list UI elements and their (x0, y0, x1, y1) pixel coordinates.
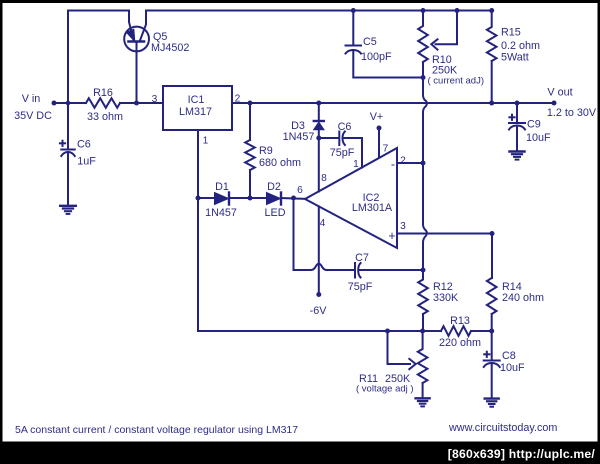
op-amp U: regulator IC1 LM317 box (163, 86, 232, 130)
svg-text:1: 1 (203, 136, 209, 147)
node: R10 wiper top junction (455, 8, 460, 13)
svg-text:R9: R9 (259, 145, 273, 157)
svg-text:LED: LED (264, 207, 285, 219)
ground (C8) (485, 399, 499, 407)
wire: input node down to C6 (67, 103, 69, 149)
ground (C9) (510, 152, 525, 160)
resistor R16 (86, 98, 120, 108)
capacitor C6 (75pF) (339, 132, 345, 146)
svg-text:C9: C9 (527, 119, 541, 131)
capacitor C8 (10uF electrolytic) (484, 331, 500, 398)
ground (input) (60, 206, 76, 214)
node: junction at V in rail / C6 (66, 101, 71, 106)
resistor R14 (240 ohm) (487, 233, 497, 331)
svg-text:2: 2 (235, 94, 241, 105)
svg-text:C7: C7 (355, 252, 369, 264)
wire: R13 to R14 (471, 330, 492, 332)
svg-text:R13: R13 (450, 315, 470, 327)
diode D3 (1N457) (314, 121, 324, 130)
wire: D3 branch (318, 103, 320, 192)
svg-text:V+: V+ (370, 111, 384, 123)
svg-text:R15: R15 (501, 27, 521, 39)
svg-text:C6: C6 (77, 139, 91, 151)
svg-text:IC1: IC1 (188, 94, 205, 106)
R11 wiper arrow (409, 359, 415, 369)
svg-text:4: 4 (320, 218, 326, 229)
node: D3 top junction on V out wire (316, 101, 321, 106)
resistor R15 (0.2 ohm 5W) (487, 11, 497, 104)
svg-text:2: 2 (400, 156, 406, 167)
wire: IC2 pin3 to R14/R15 rail (397, 233, 492, 235)
svg-text:V out: V out (547, 87, 572, 99)
wire: C6 to pin1 (319, 138, 362, 168)
capacitor C5 (100pF) (346, 46, 362, 54)
wire: top rail right segment (146, 10, 492, 12)
resistor R13 (220 ohm) (441, 326, 471, 336)
wire: R11 wiper arm (388, 331, 411, 364)
svg-text:680 ohm: 680 ohm (259, 157, 301, 169)
svg-text:C5: C5 (363, 36, 377, 48)
node: IC1 adj / D1 junction (196, 196, 201, 201)
power V+ terminal (377, 126, 382, 158)
wire: R10 wiper arm (436, 11, 458, 45)
svg-text:220 ohm: 220 ohm (439, 337, 481, 349)
node: R15 / V out junction (489, 101, 494, 106)
diode D2 (LED) (267, 193, 282, 205)
svg-text:0.2 ohm: 0.2 ohm (501, 40, 540, 52)
svg-text:3: 3 (400, 221, 406, 232)
svg-text:D2: D2 (267, 181, 281, 193)
svg-text:R16: R16 (93, 87, 113, 99)
node: C5 top junction (351, 8, 356, 13)
svg-text:6: 6 (297, 185, 303, 196)
wire: rail hop over V out wire (423, 78, 427, 163)
node: base junction on input wire (134, 101, 139, 106)
node: R15 top junction (489, 8, 494, 13)
wire: C7 to rail (360, 269, 423, 271)
wire: bottom rail (198, 330, 441, 332)
svg-text:330K: 330K (433, 292, 459, 304)
node: D3 / C6 junction (316, 136, 321, 141)
svg-text:33 ohm: 33 ohm (87, 111, 123, 123)
svg-text:1.2 to 30V: 1.2 to 30V (547, 107, 597, 119)
svg-text:www.circuitstoday.com: www.circuitstoday.com (448, 422, 557, 434)
node: pin2 rail junction (421, 161, 426, 166)
node: V out terminal (552, 101, 557, 106)
wire: IC1 pin1 down to bottom rail (197, 130, 199, 331)
svg-text:5Watt: 5Watt (501, 52, 529, 64)
wire: IC2 pin2 to R10/R12 rail (397, 162, 423, 164)
node: V in terminal (52, 101, 57, 106)
op-amp U1: IC2 LM301A (305, 148, 397, 248)
node: R9 top junction (248, 101, 253, 106)
svg-text:8: 8 (321, 173, 327, 184)
wire: feedback C7 loop with hop over pin4 line (294, 198, 356, 270)
svg-text:1N457: 1N457 (283, 131, 315, 143)
svg-text:75pF: 75pF (330, 147, 355, 159)
transistor Q5 (PNP MJ4502) (124, 11, 149, 104)
capacitor C7 (75pF) (355, 263, 361, 278)
resistor R10 (250K pot) (418, 11, 428, 78)
svg-text:+: + (388, 229, 395, 243)
svg-text:D1: D1 (215, 181, 229, 193)
node: D2 / op-amp input junction (291, 196, 296, 201)
wire: R9 leads (249, 103, 251, 198)
diode D1 (1N457) (215, 193, 230, 205)
node: C5/R10 junction (421, 75, 426, 80)
svg-text:5A constant current / constant: 5A constant current / constant voltage r… (15, 424, 298, 436)
svg-text:7: 7 (383, 144, 389, 155)
svg-text:V in: V in (22, 93, 41, 105)
wire: IC1 pin2 to V out (232, 102, 554, 104)
svg-text:1N457: 1N457 (205, 207, 237, 219)
ground (R11) (416, 398, 430, 406)
node: R10 top junction (421, 8, 426, 13)
svg-text:1: 1 (353, 159, 359, 170)
node: R11 wiper junction (385, 329, 390, 334)
svg-text:10uF: 10uF (500, 362, 525, 374)
node: D1/R9 junction (248, 196, 253, 201)
svg-text:[860x639] http://uplc.me/: [860x639] http://uplc.me/ (448, 447, 596, 461)
node: R13/R14/C8 junction (489, 329, 494, 334)
wire: top rail left segment (68, 11, 129, 104)
svg-text:3: 3 (152, 94, 158, 105)
wire: D1 D2 row (198, 197, 305, 200)
svg-text:( current adJ): ( current adJ) (428, 76, 485, 87)
node: C9 junction (515, 101, 520, 106)
svg-text:MJ4502: MJ4502 (151, 42, 189, 54)
capacitor C9 (10uF electrolytic) (509, 103, 525, 151)
svg-text:( voltage adj ): ( voltage adj ) (356, 384, 414, 395)
svg-text:75pF: 75pF (348, 281, 373, 293)
svg-text:100pF: 100pF (361, 51, 392, 63)
svg-text:1uF: 1uF (77, 156, 96, 168)
svg-text:240 ohm: 240 ohm (502, 292, 544, 304)
wire: V in to IC1 pin3 (54, 102, 163, 104)
R10 wiper arrow (431, 39, 437, 49)
node: R12/R11 junction (420, 329, 425, 334)
wire: pin4 to -6V (318, 207, 320, 295)
svg-text:C8: C8 (502, 350, 516, 362)
node: pin3 rail junction (490, 231, 495, 236)
svg-text:C6: C6 (338, 121, 352, 133)
capacitor C6 (1uF electrolytic) (60, 141, 75, 206)
svg-text:LM301A: LM301A (352, 202, 393, 214)
wire: C5 branch (353, 11, 423, 78)
svg-text:35V DC: 35V DC (14, 110, 52, 122)
resistor R11 (250K pot) (418, 331, 428, 398)
svg-text:-6V: -6V (310, 305, 328, 317)
svg-text:-: - (391, 158, 395, 172)
resistor R9 (245, 140, 255, 170)
power -6V terminal (316, 292, 321, 297)
svg-text:10uF: 10uF (526, 132, 551, 144)
resistor R12 (330K) (418, 270, 428, 331)
wire: rail pin2 to hop over pin3 wire (423, 163, 427, 271)
node: C7 rail junction (421, 268, 426, 273)
svg-text:LM317: LM317 (179, 106, 212, 118)
